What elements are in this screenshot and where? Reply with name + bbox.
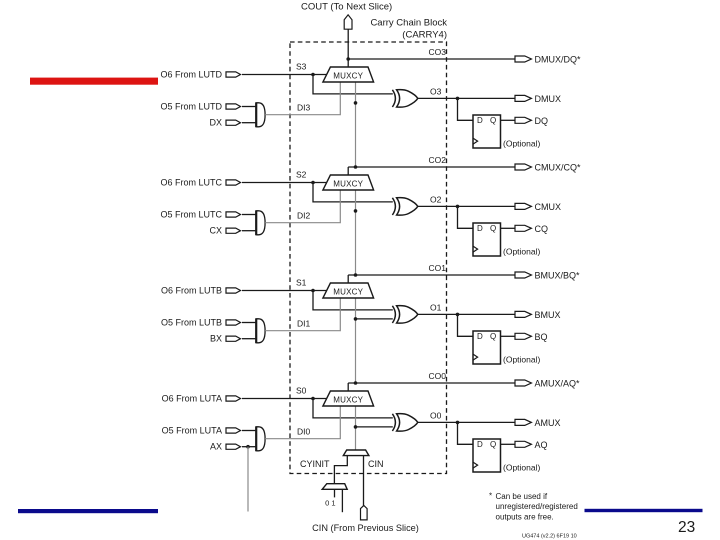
svg-text:MUXCY: MUXCY [333,396,363,405]
red accent bar top-left [30,78,158,85]
wire O1 to FF D input [458,314,474,336]
svg-text:Q: Q [490,116,496,125]
wire AQ net [501,443,516,445]
svg-text:CIN (From Previous Slice): CIN (From Previous Slice) [312,523,419,533]
svg-text:COUT (To Next Slice): COUT (To Next Slice) [301,1,392,12]
svg-text:BMUX: BMUX [535,310,561,320]
wire O0 to FF D input [458,422,474,444]
wire S3 net [242,74,327,76]
wire DI0 net [265,406,340,439]
svg-text:CO0: CO0 [429,371,447,381]
svg-text:MUXCY: MUXCY [333,288,363,297]
svg-text:BX: BX [210,334,222,344]
wire O5 to mux [242,430,256,432]
pad output CMUX [515,203,531,209]
svg-text:AQ: AQ [535,440,548,450]
wire CO0 net [348,382,515,384]
pad input BX [226,336,241,341]
pad output AMUX/AQ* [515,380,531,386]
mux bypass DI1 select [256,319,265,343]
svg-text:D: D [477,440,483,449]
mux MUXCY stage D [323,67,374,82]
pad input CX [226,228,241,233]
wire S1 net [242,290,327,292]
wire MUXCY output to CO1 [347,275,349,283]
pad output BQ [515,333,531,339]
wire CYINIT input path [334,456,347,484]
node junction O3/FF [456,97,460,101]
wire O3 net [418,97,515,99]
pad output AMUX [515,419,531,425]
node junction O2/FF [456,205,460,209]
svg-text:(Optional): (Optional) [503,354,540,364]
pad input O5 LUTB [226,320,241,325]
svg-text:DI3: DI3 [297,103,311,113]
flip-flop AQ (optional register) [473,439,501,472]
node junction CO2/carry-up [354,165,358,169]
svg-text:Carry Chain Block: Carry Chain Block [370,18,447,29]
svg-text:CQ: CQ [535,224,549,234]
wire S3 branch to XOR [313,75,393,94]
wire 1-input stub [341,489,343,512]
xor gate O2 [392,198,395,215]
node junction carry/XOR tap [354,317,358,321]
node junction S2 [311,181,315,185]
svg-text:S2: S2 [296,170,307,180]
wire BX to mux [242,338,256,340]
pad input O6 LUTC [226,180,241,185]
svg-text:DI0: DI0 [297,427,311,437]
svg-text:CX: CX [209,226,222,236]
svg-text:S1: S1 [296,278,307,288]
wire DI2 net [265,190,340,223]
svg-text:*: * [489,492,492,501]
wire CO1 net [348,274,515,276]
pad input AX [226,444,241,449]
wire S2 net [242,182,327,184]
svg-text:Can be used if: Can be used if [496,492,548,501]
svg-text:0 1: 0 1 [325,499,335,508]
svg-text:DMUX/DQ*: DMUX/DQ* [535,55,581,65]
mux CYINIT 0/1 source [322,484,347,490]
svg-text:(Optional): (Optional) [503,462,540,472]
svg-text:D: D [477,116,483,125]
node junction carry/XOR tap [354,101,358,105]
svg-text:O6 From LUTB: O6 From LUTB [161,286,222,296]
svg-text:DI2: DI2 [297,211,311,221]
svg-text:(Optional): (Optional) [503,138,540,148]
wire CO2 net [348,166,515,168]
svg-text:S0: S0 [296,386,307,396]
svg-text:O6 From LUTA: O6 From LUTA [162,394,222,404]
wire CO3 net [348,58,515,60]
svg-text:CMUX: CMUX [535,202,562,212]
svg-text:AX: AX [210,442,222,452]
svg-text:O3: O3 [430,87,442,97]
pad input O6 LUTB [226,288,241,293]
wire carry-in vertical stage C [355,190,357,275]
wire MUXCY output to CO3 [347,59,349,67]
svg-text:DMUX: DMUX [535,94,562,104]
node junction O0/FF [456,421,460,425]
dashed CARRY4 block boundary [290,42,447,474]
svg-text:DQ: DQ [535,116,549,126]
node junction carry/XOR tap [354,425,358,429]
pad input O6 LUTD [226,72,241,77]
pad CIN [360,506,367,520]
mux MUXCY stage C [323,175,374,190]
svg-text:O5 From LUTC: O5 From LUTC [160,210,222,220]
svg-text:AMUX/AQ*: AMUX/AQ* [535,379,581,389]
wire O0 net [418,421,515,423]
svg-text:D: D [477,332,483,341]
pad output BMUX/BQ* [515,272,531,278]
pad input O5 LUTA [226,428,241,433]
wire S0 branch to XOR [313,399,393,418]
pad output CMUX/CQ* [515,164,531,170]
xor gate O1 [392,306,395,323]
pad input O6 LUTA [226,396,241,401]
svg-text:CO3: CO3 [429,47,447,57]
wire BQ net [501,335,516,337]
svg-text:CO1: CO1 [429,263,447,273]
flip-flop BQ (optional register) [473,331,501,364]
svg-text:MUXCY: MUXCY [333,180,363,189]
wire O2 net [418,205,515,207]
wire carry-in vertical stage A [355,406,357,450]
svg-text:Q: Q [490,332,496,341]
wire carry tap to XOR input [356,318,393,320]
svg-text:O2: O2 [430,195,442,205]
mux bypass DI0 select [256,427,265,451]
xor gate O0 [392,414,395,431]
wire DI1 net [265,298,340,331]
svg-text:CMUX/CQ*: CMUX/CQ* [535,163,581,173]
svg-text:O1: O1 [430,303,442,313]
wire O1 net [418,313,515,315]
svg-text:O5 From LUTB: O5 From LUTB [161,318,222,328]
svg-text:DI1: DI1 [297,319,311,329]
svg-text:O6 From LUTC: O6 From LUTC [160,178,222,188]
wire O3 to FF D input [458,98,474,120]
svg-text:BMUX/BQ*: BMUX/BQ* [535,271,581,281]
svg-text:CO2: CO2 [429,155,447,165]
pad input DX [226,120,241,125]
node junction CO1/carry-up [354,273,358,277]
wire carry-in vertical stage D [355,82,357,167]
mux CYINIT select [343,450,369,456]
mux MUXCY stage A [323,391,374,406]
svg-text:DX: DX [209,118,222,128]
pad input O5 LUTD [226,104,241,109]
node junction O1/FF [456,313,460,317]
pad output DMUX/DQ* [515,56,531,62]
navy bar bottom-left [18,509,158,513]
node junction carry/XOR tap [354,209,358,213]
wire O2 to FF D input [458,206,474,228]
wire O5 to mux [242,106,256,108]
wire MUXCY output to CO0 [347,383,349,391]
wire AX down to CYINIT region [247,447,249,512]
svg-text:UG474 (v2.2) 6F19 10: UG474 (v2.2) 6F19 10 [522,534,577,540]
node junction S0 [311,397,315,401]
wire AX to mux [242,446,256,448]
svg-text:outputs are free.: outputs are free. [496,513,554,522]
wire DX to mux [242,122,256,124]
pad output BMUX [515,311,531,317]
pad input O5 LUTC [226,212,241,217]
svg-text:O0: O0 [430,411,442,421]
wire CQ net [501,227,516,229]
flip-flop CQ (optional register) [473,223,501,256]
node junction S3 [311,73,315,77]
svg-text:BQ: BQ [535,332,548,342]
svg-text:Q: Q [490,224,496,233]
pad output CQ [515,225,531,231]
svg-text:CIN: CIN [368,459,384,469]
wire CIN input path [363,456,365,506]
wire O5 to mux [242,322,256,324]
pad output DQ [515,117,531,123]
xor gate O3 [392,90,395,107]
wire carry tap to XOR input [356,426,393,428]
svg-text:D: D [477,224,483,233]
wire carry-in vertical stage B [355,298,357,383]
svg-text:23: 23 [678,519,695,536]
svg-text:S3: S3 [296,62,307,72]
wire COUT to CO3 [347,29,349,59]
navy bar bottom-right [585,509,703,512]
mux bypass DI2 select [256,211,265,235]
svg-text:O5 From LUTD: O5 From LUTD [160,102,222,112]
wire O5 to mux [242,214,256,216]
svg-text:CYINIT: CYINIT [300,459,330,469]
wire 0-input stub [334,489,336,497]
flip-flop DQ (optional register) [473,115,501,148]
wire MUXCY output to CO2 [347,167,349,175]
pad COUT [344,15,352,29]
node junction CO0/carry-up [354,381,358,385]
mux MUXCY stage B [323,283,374,298]
svg-text:(Optional): (Optional) [503,246,540,256]
wire DI3 net [265,82,340,115]
pad output DMUX [515,95,531,101]
svg-text:(CARRY4): (CARRY4) [402,30,447,41]
node junction S1 [311,289,315,293]
svg-text:O5 From LUTA: O5 From LUTA [162,426,222,436]
node junction AX branch [246,445,250,449]
svg-text:O6 From LUTD: O6 From LUTD [160,70,222,80]
svg-text:unregistered/registered: unregistered/registered [496,502,578,511]
svg-text:Q: Q [490,440,496,449]
svg-text:AMUX: AMUX [535,418,561,428]
node junction COUT/CO3 [346,57,350,61]
wire S0 net [242,398,327,400]
svg-text:MUXCY: MUXCY [333,72,363,81]
mux bypass DI3 select [256,103,265,127]
wire CX to mux [242,230,256,232]
wire DQ net [501,119,516,121]
wire S1 branch to XOR [313,291,393,310]
pad output AQ [515,441,531,447]
wire S2 branch to XOR [313,183,393,202]
